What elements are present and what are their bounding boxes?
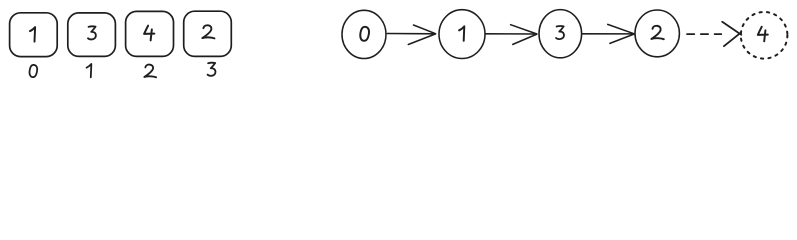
edge 0 to 1 (arrow shaft) [387,33,435,35]
list node 4 (dotted circle) [741,12,788,59]
index label 1 [87,64,92,77]
value 3 in cell 1 [88,26,96,39]
edge 1 to 3 (arrow shaft) [486,33,537,35]
label 0 in node 0 [360,27,369,41]
label 4 in node 4 [758,27,768,42]
list node 3 (circle) [539,10,582,58]
arrowhead 3 to 2 [608,24,635,43]
label 2 in node 2 [651,26,663,39]
array cell 0 (box) [10,13,58,57]
edge 2 to 4 (dashed arrow shaft) [687,33,721,35]
arrowhead 0 to 1 [408,25,435,45]
arrowhead 2 to 4 [722,22,741,46]
arrowhead 1 to 3 [511,25,537,45]
value 4 in cell 2 [144,26,154,41]
index label 3 [208,63,216,76]
value 2 in cell 3 [202,25,214,38]
list node 0 (circle) [342,10,386,58]
value 1 in cell 0 [30,27,35,42]
index label 2 [144,65,156,78]
array cell 3 (box) [184,11,232,56]
array cell 2 (box) [126,11,174,56]
list node 1 (circle) [439,10,485,59]
label 3 in node 3 [556,26,564,39]
edge 3 to 2 (arrow shaft) [582,33,634,35]
array cell 1 (box) [68,13,116,57]
label 1 in node 1 [459,26,464,41]
list node 2 (circle) [635,10,679,57]
index label 0 [29,65,37,77]
